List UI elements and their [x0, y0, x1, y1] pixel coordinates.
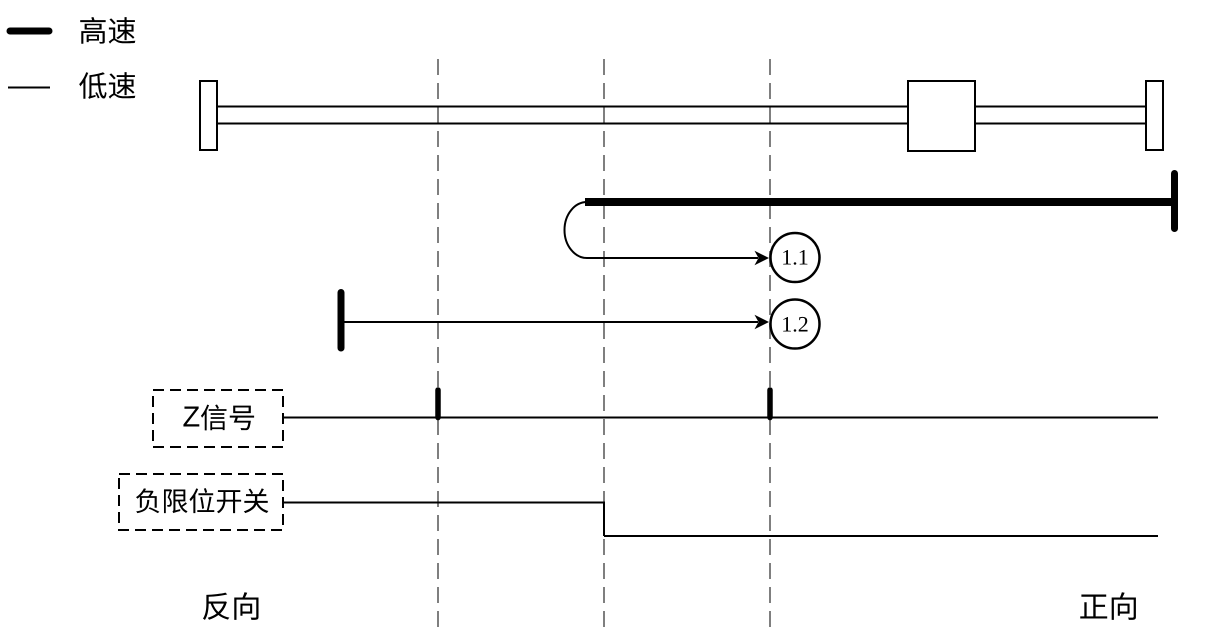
legend label 高速	[80, 17, 135, 44]
dashed reference line x=604	[603, 59, 605, 631]
rail right end plate	[1146, 81, 1163, 150]
rail shaft top line	[217, 106, 1146, 108]
step circle 1.1	[771, 233, 820, 282]
dashed reference line x=438	[437, 59, 439, 631]
arrowhead 1.2	[755, 315, 770, 329]
start bar 1.2	[338, 293, 345, 349]
limit switch falling edge	[603, 503, 605, 537]
Z signal label text	[183, 404, 254, 430]
carriage block	[908, 81, 975, 151]
dashed reference line x=770	[769, 59, 771, 631]
u-turn low-speed return curve	[565, 202, 759, 258]
negative limit switch label text	[136, 488, 268, 513]
legend label 低速	[79, 72, 135, 99]
rail left end plate	[200, 81, 217, 150]
direction label 正向	[1080, 592, 1136, 620]
low-speed motion line 1.2	[341, 321, 758, 323]
direction label 反向	[203, 592, 259, 620]
Z signal label box	[153, 390, 283, 447]
legend high-speed thick line sample	[10, 28, 49, 35]
limit switch low level	[604, 535, 1158, 537]
negative limit switch label box	[119, 474, 283, 530]
rail shaft bottom line	[217, 123, 1146, 125]
step circle 1.2	[771, 300, 820, 349]
label 1.2	[783, 317, 807, 332]
label 1.1	[783, 250, 807, 265]
arrowhead 1.1	[755, 251, 770, 265]
right stop bar	[1171, 174, 1178, 229]
Z signal baseline	[283, 417, 1158, 419]
limit switch high level	[283, 502, 605, 504]
Z pulse tick at x=438	[435, 390, 441, 418]
high-speed motion thick line	[585, 198, 1171, 206]
legend low-speed thin line sample	[8, 87, 50, 89]
Z pulse tick at x=770	[767, 390, 773, 418]
